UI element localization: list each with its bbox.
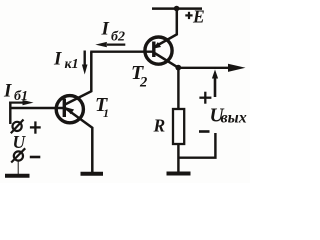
svg-text:вых: вых — [221, 109, 247, 126]
wire T2 emitter to node — [155, 53, 179, 68]
svg-text:к1: к1 — [65, 57, 79, 72]
wire output bottom — [178, 133, 215, 158]
ground R — [167, 172, 191, 176]
svg-text:I: I — [101, 19, 110, 40]
svg-text:I: I — [3, 81, 12, 102]
node +E terminal dot — [174, 6, 180, 12]
sign minus output — [199, 130, 210, 133]
arrow Uout up — [212, 70, 218, 98]
transistor T2 base bar — [152, 42, 155, 58]
wire input vertical — [9, 102, 11, 125]
svg-text:б1: б1 — [14, 89, 28, 104]
wire output top — [178, 67, 232, 69]
svg-text:1: 1 — [103, 106, 109, 120]
arrow output right — [228, 64, 246, 72]
resistor R — [173, 109, 184, 144]
sign minus input — [30, 156, 41, 159]
ground T1 emitter — [81, 172, 104, 176]
wire T1 emitter to ground — [66, 108, 93, 172]
svg-text:U: U — [13, 132, 27, 152]
wire T1 collector to node — [65, 52, 92, 105]
node junction dot — [175, 65, 181, 71]
arrow Ib1 — [9, 100, 33, 105]
terminal input plus — [11, 120, 24, 134]
wire +E rail — [152, 7, 202, 10]
wire R bottom to ground — [177, 144, 179, 172]
svg-text:2: 2 — [139, 75, 147, 91]
transistor T2 emitter arrow — [153, 42, 161, 49]
transistor T2 circle — [145, 37, 172, 64]
wire T1 base — [10, 107, 63, 109]
sign plus output — [199, 92, 211, 104]
svg-text:E: E — [192, 6, 205, 26]
transistor T1 circle — [56, 96, 83, 123]
arrow Ik1 — [82, 51, 88, 75]
wire T2 base — [90, 51, 153, 53]
arrow Ib2 — [95, 42, 125, 47]
terminal input minus — [11, 148, 25, 162]
transistor T1 base bar — [63, 99, 66, 118]
wire node to R — [177, 68, 179, 109]
svg-text:I: I — [53, 49, 62, 70]
transistor T1 emitter arrow — [66, 107, 74, 114]
ground input — [5, 161, 30, 176]
sign plus E — [185, 12, 192, 19]
wire T2 collector to rail — [156, 9, 177, 46]
sign plus input — [30, 121, 41, 133]
svg-text:б2: б2 — [111, 30, 125, 45]
svg-text:R: R — [153, 116, 166, 136]
